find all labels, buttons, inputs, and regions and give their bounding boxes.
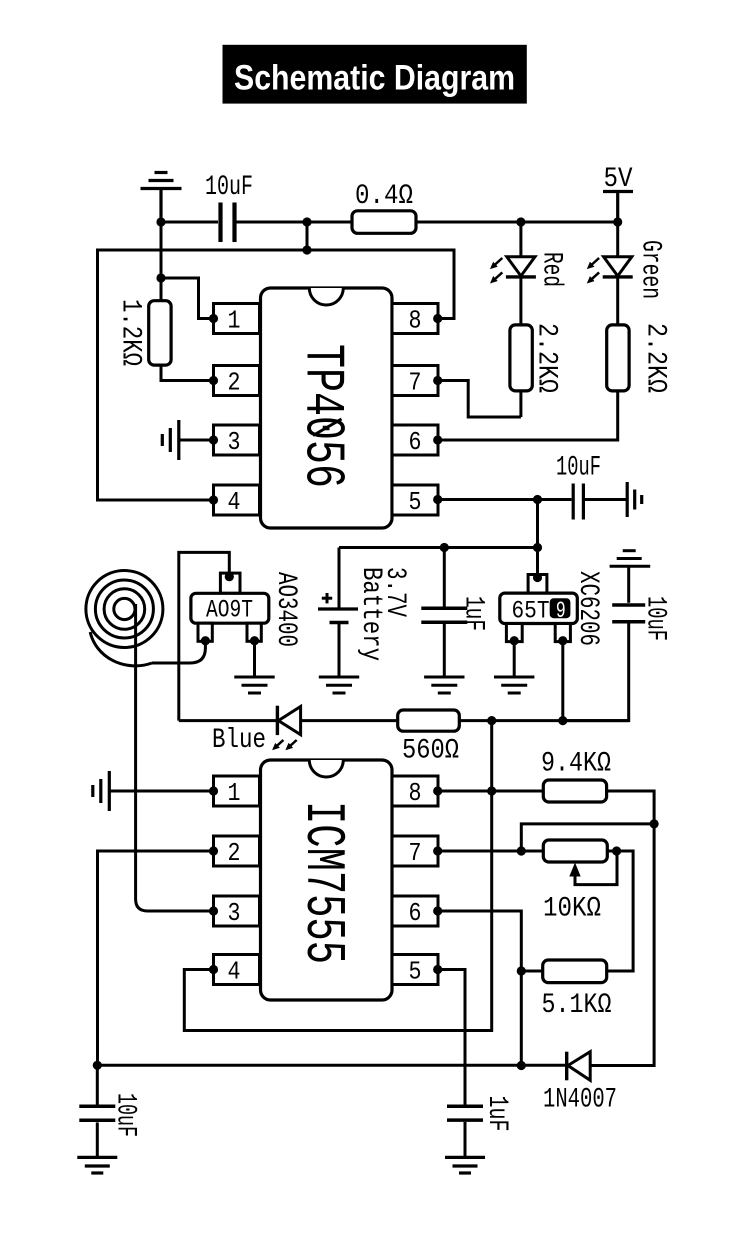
regulator U3 XC6206 top pin box bbox=[528, 575, 547, 594]
wire U2 pin7 to pot bbox=[438, 850, 544, 853]
battery BT1 positive stem bbox=[338, 548, 341, 610]
pin 7 node bbox=[433, 846, 442, 855]
capacitor C5 10uF plates bbox=[612, 605, 645, 622]
svg-text:3.7V: 3.7V bbox=[379, 567, 410, 617]
ground (C6) bbox=[77, 1157, 117, 1173]
coil L1 turns bbox=[86, 571, 163, 666]
svg-text:5: 5 bbox=[409, 487, 422, 517]
junction to pin1 link bbox=[156, 273, 165, 282]
wire R1 to 5V node bbox=[416, 221, 618, 224]
transistor Q1 top pin node bbox=[225, 572, 234, 581]
bus wire B: pin8 corner, across, down left side to pin4 bbox=[98, 250, 455, 500]
wire C1 to R1 bbox=[237, 221, 353, 224]
wire stub x307 down to bus B bbox=[306, 222, 309, 250]
svg-text:10uF: 10uF bbox=[110, 1093, 141, 1137]
resistor R2 1.2Kohm bbox=[149, 301, 171, 365]
pin 2 node bbox=[209, 846, 218, 855]
pin box 1 (TP4056) bbox=[214, 304, 260, 334]
wire 5.1K left stub bbox=[521, 970, 542, 973]
regulator U3 bottom-right pin box bbox=[555, 624, 570, 642]
wire C3 stem bbox=[443, 548, 446, 607]
wire battery rail bbox=[339, 546, 538, 549]
wire bottom rail to diode bbox=[97, 1064, 565, 1067]
pin 5 node bbox=[433, 965, 442, 974]
IC U2 ICM7555 body bbox=[261, 760, 393, 1000]
junction 560 rail / pin8 drop bbox=[487, 716, 496, 725]
IC U1 zero slash bbox=[313, 419, 342, 436]
svg-text:0.4Ω: 0.4Ω bbox=[355, 181, 413, 212]
ground (battery) bbox=[319, 677, 359, 693]
battery BT1 short plate bbox=[330, 621, 349, 624]
pin box 3 (ICM7555) bbox=[214, 896, 260, 926]
pin box 4 (ICM7555) bbox=[214, 955, 260, 985]
svg-text:2.2KΩ: 2.2KΩ bbox=[531, 323, 562, 393]
battery BT1 plus sign bbox=[322, 593, 332, 603]
wire R5 right end down to diode rail bbox=[590, 791, 654, 1066]
ground (TP4056 pin3, pointing left) bbox=[162, 420, 179, 460]
wire R8 to C5 corner bbox=[459, 719, 628, 722]
regulator U3 output pin node bbox=[558, 636, 567, 645]
svg-text:1uF: 1uF bbox=[481, 1096, 512, 1132]
wire red branch from top rail bbox=[519, 222, 522, 257]
junction pin6 drop / 5.1K bbox=[517, 966, 526, 975]
svg-text:7: 7 bbox=[409, 838, 422, 868]
wire U2 pin2 down left side bbox=[98, 851, 214, 1065]
svg-text:6: 6 bbox=[409, 898, 422, 928]
svg-text:9.4KΩ: 9.4KΩ bbox=[541, 749, 611, 780]
svg-text:8: 8 bbox=[409, 306, 422, 336]
junction pin8 wire / drop bbox=[487, 786, 496, 795]
capacitor C6 10uF (bottom left) plates bbox=[79, 1106, 115, 1120]
pin 1 node bbox=[209, 314, 218, 323]
transistor Q1 body bbox=[191, 593, 269, 623]
wire C6 stem top bbox=[96, 1065, 99, 1104]
wire pot right end bbox=[607, 851, 633, 971]
svg-text:1uF: 1uF bbox=[458, 596, 489, 631]
svg-text:4: 4 bbox=[228, 957, 241, 987]
wire U3 output pin down bbox=[561, 641, 564, 721]
wire C3 to ground bbox=[443, 624, 446, 677]
LED D2 emission arrows bbox=[592, 258, 599, 279]
svg-text:2: 2 bbox=[228, 838, 241, 868]
wire LED green to R4 bbox=[616, 277, 619, 325]
regulator U3 black tab bbox=[550, 598, 571, 618]
transistor Q1 source node bbox=[250, 636, 259, 645]
pin box 7 (TP4056) bbox=[392, 366, 438, 396]
junction R5 drop / pot link bbox=[650, 819, 659, 828]
svg-text:4: 4 bbox=[228, 487, 241, 517]
ground (C5, pointing up) bbox=[610, 551, 651, 567]
pin 5 node bbox=[433, 495, 442, 504]
junction bottom-left bbox=[93, 1061, 102, 1070]
wire C5 down to 560 rail bbox=[563, 623, 629, 720]
pin 4 node bbox=[209, 965, 218, 974]
regulator U3 body bbox=[500, 593, 578, 623]
wire pin5 to C2 bbox=[438, 498, 572, 501]
pin box 8 (ICM7555) bbox=[392, 776, 438, 806]
wire pot link bbox=[521, 824, 654, 851]
pin box 4 (TP4056) bbox=[214, 485, 260, 515]
pin box 5 (TP4056) bbox=[392, 485, 438, 515]
svg-text:5.1KΩ: 5.1KΩ bbox=[542, 990, 612, 1021]
wire R3 to pin7 corner bbox=[519, 391, 522, 417]
transistor Q1 gate node bbox=[201, 636, 210, 645]
IC U1 notch bbox=[309, 288, 343, 305]
wire U2 pin6 down to diode rail bbox=[438, 911, 522, 1066]
power 5V symbol bbox=[603, 192, 633, 223]
ground (C2, pointing right) bbox=[627, 482, 642, 517]
wire green branch from 5V node bbox=[616, 222, 619, 257]
wire Q1 source to ground bbox=[253, 641, 256, 677]
regulator U3 bottom-left pin box bbox=[506, 624, 522, 642]
battery BT1 negative stem bbox=[338, 623, 341, 678]
pin 8 node bbox=[433, 786, 442, 795]
transistor Q1 top pin box bbox=[220, 573, 240, 593]
svg-text:1: 1 bbox=[228, 778, 241, 808]
resistor R7 5.1Kohm bbox=[543, 960, 607, 983]
junction 560 rail / U3 output bbox=[558, 716, 567, 725]
diode D4 1N4007 triangle bbox=[568, 1052, 590, 1081]
svg-text:6: 6 bbox=[409, 427, 422, 457]
LED D3 blue triangle bbox=[278, 707, 300, 735]
regulator U3 ground pin node bbox=[510, 636, 519, 645]
pin 2 node bbox=[209, 376, 218, 385]
svg-text:1.2KΩ: 1.2KΩ bbox=[115, 299, 146, 366]
wire U2 pin4 loop to pin8 drop bbox=[184, 721, 491, 1031]
svg-text:560Ω: 560Ω bbox=[402, 736, 459, 767]
junction pin5/regulator branch bbox=[533, 495, 542, 504]
junction node top-left bbox=[156, 217, 165, 226]
ground (Q1) bbox=[234, 677, 274, 693]
capacitor C1 10uF plates bbox=[221, 203, 235, 243]
IC U2 notch bbox=[309, 760, 343, 777]
junction pot wiper tie bbox=[612, 846, 621, 855]
wire blue LED to R8 bbox=[301, 719, 398, 722]
battery BT1 long plate bbox=[318, 607, 358, 610]
pin 6 node bbox=[433, 435, 442, 444]
svg-text:1N4007: 1N4007 bbox=[543, 1085, 617, 1116]
pin box 6 (TP4056) bbox=[392, 425, 438, 455]
capacitor C2 10uF plates bbox=[573, 484, 583, 520]
svg-text:2: 2 bbox=[228, 368, 241, 398]
LED D1 cathode bar bbox=[506, 275, 536, 278]
wire regulator branch down bbox=[536, 500, 539, 578]
junction red led branch bbox=[516, 217, 525, 226]
svg-text:XC6206: XC6206 bbox=[572, 571, 603, 646]
junction C3 bbox=[440, 543, 449, 552]
svg-text:TP4056: TP4056 bbox=[291, 344, 355, 488]
svg-text:AO3400: AO3400 bbox=[270, 572, 301, 647]
junction green led / 5V branch bbox=[613, 217, 622, 226]
ground (C3) bbox=[424, 677, 464, 693]
svg-text:10uF: 10uF bbox=[640, 596, 671, 641]
resistor R8 560ohm bbox=[398, 710, 460, 731]
LED D3 emission arrows bbox=[277, 740, 297, 746]
pin box 5 (ICM7555) bbox=[392, 955, 438, 985]
pin box 2 (ICM7555) bbox=[214, 836, 260, 866]
capacitor C7 1uF (bottom right) plates bbox=[447, 1106, 483, 1120]
wire C7 to ground bbox=[464, 1122, 467, 1156]
wire LED to R3 bbox=[519, 277, 522, 325]
title block bbox=[223, 45, 527, 104]
svg-text:1: 1 bbox=[228, 306, 241, 336]
ground (U2 pin1, pointing left) bbox=[93, 771, 110, 811]
wire ground node down to R2 bbox=[160, 222, 163, 301]
wire C2 to ground bbox=[585, 498, 627, 501]
pin box 8 (TP4056) bbox=[392, 304, 438, 334]
svg-text:2.2KΩ: 2.2KΩ bbox=[640, 323, 671, 393]
svg-text:Red: Red bbox=[536, 252, 567, 287]
wire Q1 drain rail to blue LED bbox=[179, 719, 276, 722]
svg-text:ICM7555: ICM7555 bbox=[291, 801, 355, 964]
svg-text:8: 8 bbox=[409, 778, 422, 808]
wire pin3 to ground bbox=[179, 439, 214, 442]
resistor R3 2.2Kohm (red) bbox=[510, 325, 532, 391]
resistor R5 9.4Kohm bbox=[543, 780, 606, 802]
wire pin7 to red resistor bottom bbox=[438, 381, 521, 418]
pin 3 node bbox=[209, 906, 218, 915]
LED D1 emission arrows bbox=[495, 258, 502, 279]
junction at x307 top rail bbox=[302, 217, 311, 226]
transistor Q1 bottom-right pin box bbox=[247, 623, 261, 641]
pin 3 node bbox=[209, 435, 218, 444]
svg-text:AO9T: AO9T bbox=[206, 596, 253, 625]
svg-text:7: 7 bbox=[409, 368, 422, 398]
svg-text:Schematic Diagram: Schematic Diagram bbox=[234, 58, 515, 98]
ground (U3) bbox=[494, 677, 534, 693]
svg-text:5: 5 bbox=[409, 957, 422, 987]
ground (C7) bbox=[445, 1157, 485, 1173]
diode D4 1N4007 cathode bar bbox=[565, 1052, 568, 1081]
svg-text:3: 3 bbox=[228, 427, 241, 457]
pin 1 node bbox=[209, 786, 218, 795]
pot R6 wiper arrowhead bbox=[569, 863, 580, 877]
wire ground to C5 bbox=[627, 566, 630, 603]
svg-text:5V: 5V bbox=[604, 164, 633, 195]
pin 6 node bbox=[433, 906, 442, 915]
wire U3 ground pin to ground bbox=[513, 641, 516, 677]
svg-text:10KΩ: 10KΩ bbox=[543, 894, 601, 925]
junction battery rail bbox=[533, 543, 542, 552]
potentiometer R6 10Kohm body bbox=[543, 840, 607, 862]
svg-text:10uF: 10uF bbox=[556, 453, 601, 484]
IC U1 TP4056 body bbox=[261, 288, 393, 528]
ground (top-left, pointing up) bbox=[141, 173, 182, 223]
wire R4 to pin6 bbox=[438, 391, 618, 440]
capacitor C3 1uF plates bbox=[421, 608, 467, 622]
svg-text:10uF: 10uF bbox=[205, 172, 253, 203]
wire Q1 gate to coil bbox=[152, 641, 205, 663]
pot R6 wiper arrow bbox=[575, 853, 617, 885]
LED D3 blue cathode bar bbox=[276, 706, 279, 735]
pin 7 node bbox=[433, 376, 442, 385]
wire top rail left bbox=[161, 221, 218, 224]
svg-text:3: 3 bbox=[228, 898, 241, 928]
svg-text:Blue: Blue bbox=[212, 725, 266, 756]
wire U2 pin8 to R5 bbox=[438, 790, 544, 793]
LED D2 cathode bar bbox=[603, 275, 633, 278]
junction diode rail / pin6 drop bbox=[517, 1061, 526, 1070]
wire R2 to pin 2 bbox=[161, 365, 214, 380]
pin box 7 (ICM7555) bbox=[392, 836, 438, 866]
resistor R1 0.4ohm bbox=[352, 211, 416, 234]
svg-text:Green: Green bbox=[635, 240, 666, 299]
pin box 6 (ICM7555) bbox=[392, 896, 438, 926]
transistor Q1 A03400 top pin wire bbox=[179, 552, 230, 720]
junction at x307 bus B bbox=[302, 245, 311, 254]
pin box 2 (TP4056) bbox=[214, 366, 260, 396]
pin 4 node bbox=[209, 495, 218, 504]
resistor R4 2.2Kohm (green) bbox=[607, 325, 629, 391]
svg-text:9: 9 bbox=[556, 598, 566, 624]
wire U2 pin5 down to C7 bbox=[438, 970, 465, 1105]
wire C6 to ground bbox=[96, 1122, 99, 1156]
pin box 3 (TP4056) bbox=[214, 425, 260, 455]
pin box 1 (ICM7555) bbox=[214, 776, 260, 806]
transistor Q1 bottom-left pin box bbox=[198, 623, 212, 641]
wire link to pin 1 bbox=[161, 278, 214, 319]
regulator U3 top pin node bbox=[533, 573, 542, 582]
svg-text:65T: 65T bbox=[512, 597, 550, 626]
wire U2 pin1 to ground bbox=[109, 790, 213, 793]
junction pot link / pin7 wire bbox=[517, 846, 526, 855]
coil L1 centre tap to ICM7555 pin 3 bbox=[136, 604, 214, 911]
pin 8 node bbox=[433, 314, 442, 323]
LED D2 green triangle bbox=[604, 257, 632, 276]
LED D1 red triangle bbox=[507, 257, 535, 276]
